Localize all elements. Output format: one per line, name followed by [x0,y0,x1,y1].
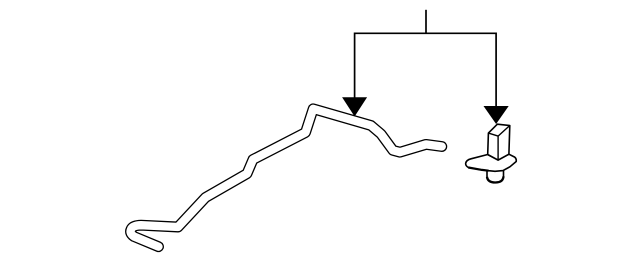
sensor flange plate [466,154,517,171]
sensor cylinder stem [487,166,504,182]
sensor flange lower-left thick edge [468,168,488,171]
sensor body box [488,124,510,160]
sensor cylinder bottom arc [487,176,504,182]
arrowhead left [342,97,367,116]
arrowhead right [484,106,509,124]
sensor box top-face edges [488,126,509,161]
wire callout bracket: left drop, horizontal bar, right drop [355,33,497,107]
tube inner white body [131,109,442,247]
tube outer outline [131,109,442,247]
wire callout top stub [425,10,427,34]
